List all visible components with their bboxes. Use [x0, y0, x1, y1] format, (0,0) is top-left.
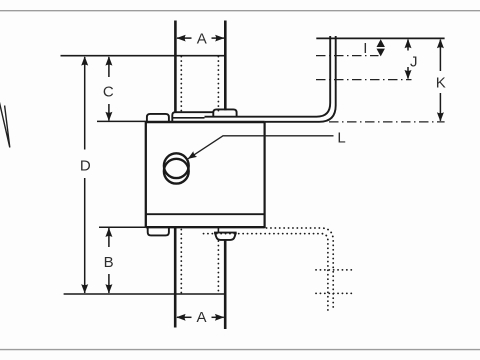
svg-text:A: A — [196, 309, 206, 326]
svg-text:C: C — [103, 83, 114, 100]
svg-text:I: I — [363, 40, 367, 57]
svg-text:L: L — [337, 129, 345, 146]
svg-text:A: A — [197, 30, 207, 47]
svg-text:K: K — [436, 75, 446, 92]
svg-text:B: B — [104, 254, 114, 271]
svg-text:D: D — [80, 158, 91, 175]
svg-text:J: J — [410, 54, 418, 71]
